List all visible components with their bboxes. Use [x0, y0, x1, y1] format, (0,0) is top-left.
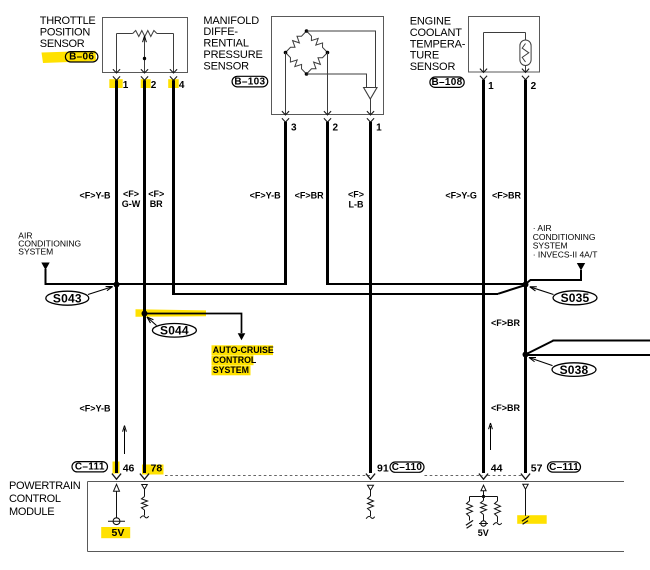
svg-text:3: 3 — [291, 123, 297, 134]
svg-text:COOLANT: COOLANT — [410, 27, 463, 39]
svg-text:<F>BR: <F>BR — [492, 191, 522, 201]
svg-text:<F>: <F> — [123, 189, 139, 199]
svg-text:4: 4 — [179, 80, 185, 91]
svg-text:2: 2 — [531, 81, 537, 92]
svg-text:POWERTRAIN: POWERTRAIN — [9, 480, 81, 492]
svg-text:B–06: B–06 — [69, 52, 94, 63]
svg-text:SENSOR: SENSOR — [203, 60, 249, 72]
svg-text:C–111: C–111 — [75, 462, 105, 473]
svg-text:5V: 5V — [112, 527, 125, 539]
svg-text:B–108: B–108 — [432, 77, 463, 88]
svg-text:<F>BR: <F>BR — [491, 403, 521, 413]
svg-text:S035: S035 — [561, 291, 590, 305]
svg-text:SENSOR: SENSOR — [410, 61, 456, 73]
svg-text:<F>BR: <F>BR — [295, 191, 325, 201]
svg-text:44: 44 — [491, 462, 503, 474]
svg-text:MODULE: MODULE — [9, 506, 54, 518]
svg-text:<F>BR: <F>BR — [491, 318, 521, 328]
svg-text:· INVECS-II 4A/T: · INVECS-II 4A/T — [533, 250, 598, 260]
svg-text:L-B: L-B — [349, 200, 364, 210]
svg-text:S043: S043 — [53, 291, 82, 305]
svg-text:CONTROL: CONTROL — [213, 355, 257, 365]
svg-text:91: 91 — [377, 462, 389, 474]
svg-text:<F>Y-B: <F>Y-B — [79, 191, 111, 201]
svg-text:C–111: C–111 — [549, 462, 579, 473]
svg-text:DIFFE-: DIFFE- — [203, 26, 238, 38]
svg-text:MANIFOLD: MANIFOLD — [203, 15, 259, 27]
svg-text:<F>Y-B: <F>Y-B — [79, 404, 111, 414]
svg-text:46: 46 — [123, 462, 135, 474]
svg-text:2: 2 — [333, 123, 339, 134]
svg-text:AUTO-CRUISE: AUTO-CRUISE — [213, 345, 274, 355]
svg-text:1: 1 — [123, 80, 129, 91]
svg-text:RENTIAL: RENTIAL — [203, 38, 248, 50]
svg-text:57: 57 — [531, 462, 543, 474]
svg-text:5V: 5V — [478, 528, 489, 538]
svg-text:2: 2 — [151, 80, 157, 91]
svg-text:PRESSURE: PRESSURE — [203, 49, 262, 61]
svg-text:THROTTLE: THROTTLE — [40, 15, 96, 27]
svg-text:<F>Y-G: <F>Y-G — [445, 191, 477, 201]
svg-text:78: 78 — [151, 462, 163, 474]
svg-text:<F>: <F> — [148, 189, 164, 199]
svg-text:<F>Y-B: <F>Y-B — [250, 191, 282, 201]
svg-text:TURE: TURE — [410, 50, 439, 62]
svg-text:G-W: G-W — [122, 199, 141, 209]
svg-text:1: 1 — [488, 81, 494, 92]
svg-text:SYSTEM: SYSTEM — [18, 246, 53, 256]
svg-text:ENGINE: ENGINE — [410, 16, 451, 28]
svg-text:C–110: C–110 — [392, 462, 423, 473]
svg-text:S038: S038 — [560, 363, 589, 377]
svg-text:POSITION: POSITION — [40, 26, 91, 38]
svg-text:SENSOR: SENSOR — [40, 38, 85, 50]
svg-text:CONTROL: CONTROL — [9, 493, 61, 505]
svg-text:B–103: B–103 — [234, 77, 265, 88]
svg-text:TEMPERA-: TEMPERA- — [410, 38, 466, 50]
svg-text:S044: S044 — [160, 324, 189, 338]
svg-text:BR: BR — [150, 199, 163, 209]
svg-text:SYSTEM: SYSTEM — [213, 365, 249, 375]
svg-text:1: 1 — [376, 123, 382, 134]
svg-text:<F>: <F> — [348, 190, 364, 200]
